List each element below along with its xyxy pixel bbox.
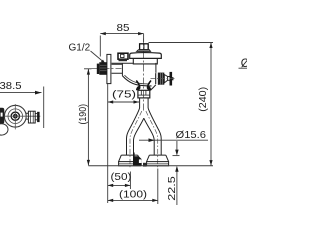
- inlet boss face: [121, 63, 123, 76]
- front view hub ring: [11, 112, 19, 120]
- left hex nut: [118, 53, 128, 59]
- G1/2 leader: [91, 51, 104, 62]
- front view right end knob: [37, 112, 40, 122]
- body left shoulder: [112, 62, 134, 64]
- handle stem: [168, 77, 170, 81]
- svg-text:(50): (50): [111, 171, 132, 183]
- handle tip: [172, 77, 173, 80]
- body right wall: [155, 63, 157, 73]
- dim (240) line: [210, 43, 212, 166]
- funnel horn left: [136, 86, 141, 90]
- left hex nut base: [119, 59, 128, 61]
- dim (50) line: [108, 184, 131, 186]
- dim 22.5 foot-top extension: [173, 155, 180, 157]
- handle block: [158, 73, 164, 85]
- front view right fitting neck: [26, 113, 28, 119]
- bonnet cap crown: [130, 53, 162, 59]
- dim 38.5 extension line: [43, 87, 45, 129]
- funnel neck left: [136, 81, 139, 88]
- svg-text:(75): (75): [112, 89, 136, 101]
- front view hub center: [13, 114, 18, 119]
- front view lower-left ellipse: [0, 124, 8, 135]
- dim 22.5 lower arrow: [176, 171, 178, 205]
- dim (240) top leader: [149, 42, 214, 44]
- dim 85 extension lines: [100, 34, 143, 57]
- svg-text:(190): (190): [77, 104, 89, 125]
- handle knob disc: [170, 72, 173, 86]
- funnel horn right: [147, 86, 152, 90]
- dim (100) right extension: [157, 169, 159, 205]
- dim (100) line: [108, 199, 158, 201]
- svg-text:85: 85: [117, 22, 130, 34]
- right foot: [147, 155, 169, 162]
- dim (190) line: [87, 69, 89, 166]
- svg-text:(240): (240): [197, 87, 209, 112]
- leader arrow blob on left foot: [134, 156, 142, 166]
- body belly inner line: [125, 75, 151, 84]
- front view inner circle: [8, 109, 23, 124]
- svg-text:Ø15.6: Ø15.6: [176, 129, 207, 141]
- dim (75) line: [108, 101, 139, 103]
- Y pipe left leg outer: [127, 108, 140, 155]
- outlet flange: [156, 73, 159, 85]
- funnel neck right: [148, 81, 151, 88]
- front view right fitting neck2: [35, 113, 37, 119]
- svg-text:38.5: 38.5: [0, 80, 22, 92]
- top nut washer: [137, 50, 151, 52]
- left leg centerline: [130, 111, 142, 169]
- handle taper: [164, 75, 167, 83]
- dark patch between feet: [143, 163, 147, 167]
- front view left cut fitting: [0, 108, 4, 124]
- dim 22.5 upper arrow: [176, 141, 178, 150]
- body lower-right edge under outlet: [150, 85, 156, 91]
- front view outer circle: [4, 105, 26, 127]
- Y pipe right leg outer: [148, 108, 161, 155]
- coupling nut: [138, 90, 150, 98]
- Y pipe right leg inner: [144, 118, 154, 155]
- dim Ø15.6 leader: [139, 139, 208, 141]
- inlet centerline: [92, 68, 123, 70]
- inlet pipe: [112, 64, 123, 73]
- bonnet cap collar: [133, 58, 157, 64]
- left foot: [119, 155, 141, 162]
- G1/2 threaded nipple: [99, 62, 107, 75]
- svg-text:22.5: 22.5: [166, 176, 178, 201]
- dim (190) top extension: [84, 68, 92, 70]
- Ø label underline (right edge): [239, 67, 248, 69]
- wall flange plate: [107, 54, 111, 83]
- dim 85 line: [100, 33, 143, 35]
- dim (50) right extension: [129, 172, 131, 190]
- Y pipe left leg inner: [134, 118, 144, 155]
- svg-text:Ø: Ø: [241, 58, 247, 70]
- ground line: [88, 165, 213, 167]
- front view vertical centerline: [14, 104, 16, 129]
- right leg centerline: [146, 111, 158, 169]
- body belly lower edge: [122, 76, 151, 86]
- main vertical centerline: [143, 39, 145, 113]
- top nut: [140, 44, 149, 50]
- left extension line (wall face): [107, 84, 109, 203]
- handle centerline: [151, 78, 176, 80]
- svg-text:G1/2: G1/2: [69, 41, 91, 53]
- front view horizontal centerline: [2, 115, 40, 117]
- tailpipe: [140, 98, 149, 108]
- dim 38.5 line: [0, 92, 42, 94]
- svg-text:(100): (100): [119, 189, 147, 201]
- front view right fitting nut: [28, 111, 35, 123]
